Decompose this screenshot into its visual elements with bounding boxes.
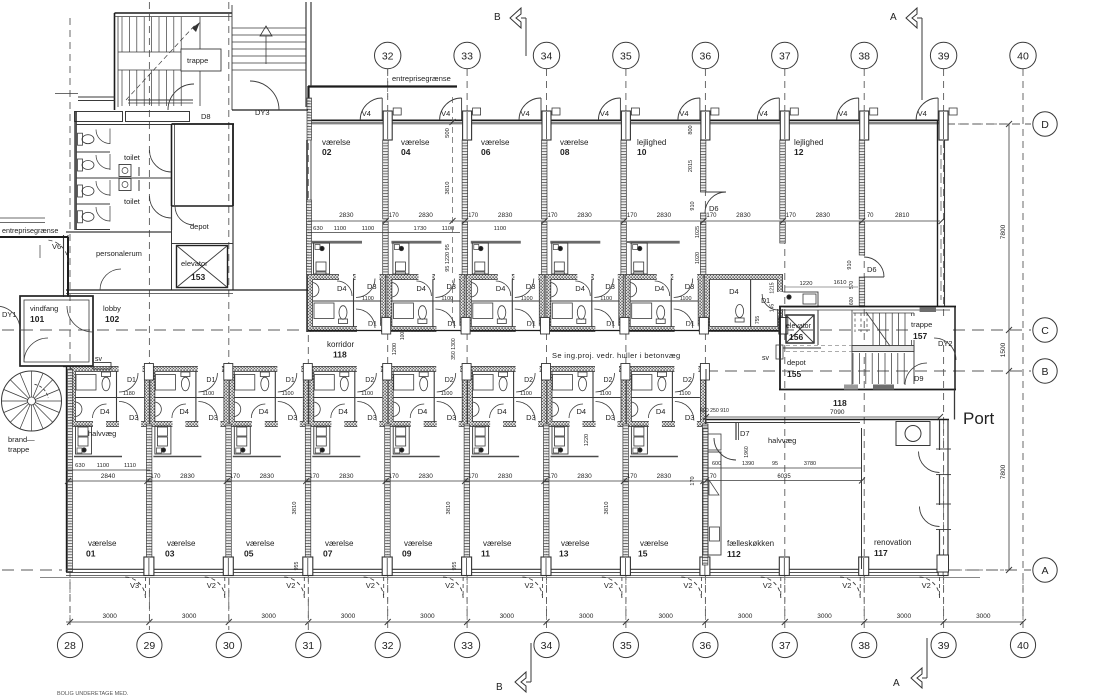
svg-text:A: A (890, 12, 897, 23)
grid bubble A (1033, 558, 1057, 582)
svg-text:3810: 3810 (292, 502, 298, 515)
grid bubble 30 bottom (216, 632, 241, 657)
svg-text:toilet: toilet (124, 153, 141, 162)
svg-text:1100: 1100 (334, 226, 346, 232)
bathroom pod south 1 (152, 369, 226, 424)
svg-text:33: 33 (461, 51, 473, 63)
svg-text:3810: 3810 (446, 502, 452, 515)
svg-text:D4: D4 (575, 284, 585, 293)
svg-text:V4: V4 (679, 109, 688, 118)
trappe 157 treads upper (854, 313, 856, 332)
grid line 32 (387, 69, 389, 630)
kitchenette south module 3 (312, 456, 360, 458)
svg-text:BOLIG UNDERETAGE MED.: BOLIG UNDERETAGE MED. (57, 691, 129, 697)
svg-text:09: 09 (402, 549, 412, 559)
grid bubble 39 bottom (931, 632, 956, 657)
pier south grid 31 (303, 557, 313, 576)
svg-text:A: A (1041, 565, 1048, 577)
spiral stair brandtrappe (2, 371, 62, 431)
svg-text:værelse: værelse (246, 539, 275, 548)
svg-text:153: 153 (191, 272, 205, 282)
party wall grid 33 lower-south (464, 481, 470, 565)
svg-text:156: 156 (789, 332, 803, 342)
wall pods-east (705, 369, 707, 424)
svg-text:1100: 1100 (600, 296, 612, 302)
stair dashed landing lines (786, 345, 852, 347)
grid line C (2, 329, 306, 331)
door V4 grid 39 (916, 98, 938, 120)
svg-text:1100: 1100 (441, 391, 453, 397)
svg-text:15: 15 (638, 549, 648, 559)
grid bubble 37 bottom (772, 632, 797, 657)
pier grid 34 (542, 111, 551, 140)
svg-text:170: 170 (547, 474, 558, 480)
door arc DY2 (934, 338, 956, 360)
pier grid 35 (621, 111, 630, 140)
svg-text:2830: 2830 (339, 473, 354, 480)
svg-text:02: 02 (322, 147, 332, 157)
bathroom pod south 2 (232, 369, 306, 424)
svg-text:D2: D2 (604, 377, 613, 384)
kitchenette north module 2 (471, 241, 521, 244)
grid bubble D (1033, 112, 1057, 136)
exit door V2 4 (522, 577, 543, 598)
svg-text:102: 102 (105, 314, 119, 324)
svg-text:1180: 1180 (123, 391, 135, 397)
door arc renovation south (920, 507, 940, 527)
corridor pier south grid 30 (224, 364, 233, 381)
bathroom pod south 4 (391, 369, 465, 424)
grid line 38 (863, 69, 865, 630)
svg-text:03: 03 (165, 549, 175, 559)
svg-text:170: 170 (150, 474, 161, 480)
svg-text:08: 08 (560, 147, 570, 157)
pier south grid 33 (462, 557, 472, 576)
svg-text:600: 600 (849, 297, 855, 306)
svg-text:170: 170 (389, 213, 400, 219)
corridor pier south grid 35 (621, 364, 630, 381)
svg-text:værelse: værelse (561, 539, 590, 548)
trappe 157 treads lower (852, 353, 854, 384)
svg-text:600: 600 (712, 461, 721, 467)
renovation appliance (896, 422, 930, 446)
corridor north wall (308, 330, 782, 332)
svg-text:V2: V2 (366, 581, 375, 590)
svg-text:D1: D1 (286, 377, 295, 384)
svg-text:værelse: værelse (88, 539, 117, 548)
svg-text:B: B (1041, 366, 1048, 378)
svg-text:170: 170 (627, 213, 638, 219)
right stair block outer walls (779, 306, 956, 308)
svg-text:V6: V6 (52, 242, 61, 251)
grid bubble 37 top (772, 42, 798, 68)
outdoor stair top (231, 5, 233, 110)
party wall grid 38 lower (859, 222, 865, 255)
svg-text:36: 36 (700, 640, 712, 652)
svg-text:35: 35 (620, 51, 632, 63)
party wall grid 34 lower (542, 222, 548, 277)
svg-text:sv: sv (95, 356, 103, 363)
grid bubble 38 bottom (852, 632, 877, 657)
svg-text:36: 36 (700, 51, 712, 63)
svg-text:V4: V4 (759, 109, 768, 118)
svg-text:trappe: trappe (911, 320, 932, 329)
svg-text:D4: D4 (496, 284, 506, 293)
svg-text:V4: V4 (521, 109, 530, 118)
svg-text:V2: V2 (207, 581, 216, 590)
svg-text:04: 04 (401, 147, 411, 157)
door V4 grid 34 (519, 98, 541, 120)
svg-text:Port: Port (963, 409, 994, 428)
svg-text:3000: 3000 (420, 613, 435, 620)
sidewalk lines far left (0, 217, 45, 219)
svg-text:V4: V4 (362, 109, 371, 118)
party wall grid 35 lower-south (623, 481, 629, 565)
svg-text:118: 118 (833, 398, 847, 408)
bathroom pod north 2 (469, 277, 542, 329)
wall hatch segments stair block (920, 308, 936, 313)
window box grid 39 (949, 108, 957, 115)
svg-text:3000: 3000 (658, 613, 673, 620)
svg-text:V2: V2 (842, 581, 851, 590)
svg-text:05: 05 (244, 549, 254, 559)
svg-text:1110: 1110 (124, 463, 136, 469)
svg-text:500: 500 (445, 128, 451, 138)
svg-text:V2: V2 (922, 581, 931, 590)
svg-text:34: 34 (541, 640, 553, 652)
svg-text:1610: 1610 (834, 280, 847, 286)
grid line 34 (546, 69, 548, 630)
grid line 33 (466, 69, 468, 630)
party wall grid 36 lower (700, 222, 706, 277)
svg-text:170: 170 (468, 474, 479, 480)
svg-text:brand—: brand— (8, 435, 35, 444)
pier grid 36 (701, 111, 710, 140)
svg-text:112: 112 (727, 549, 741, 559)
kitchenette south module 4 (392, 456, 440, 458)
grid bubble 31 bottom (296, 632, 321, 657)
svg-text:95 1220 95: 95 1220 95 (445, 244, 451, 272)
door arc vindfang west (0, 306, 20, 330)
svg-text:1100: 1100 (600, 391, 612, 397)
dimension line south pods (66, 469, 150, 471)
svg-text:570: 570 (849, 281, 855, 290)
svg-text:personalerum: personalerum (96, 249, 142, 258)
bathroom pod north 3 (548, 277, 621, 329)
svg-text:2830: 2830 (577, 473, 592, 480)
svg-text:lejlighed: lejlighed (637, 138, 666, 147)
party wall grid 33 upper-south (464, 424, 470, 481)
svg-text:fælleskøkken: fælleskøkken (727, 539, 774, 548)
svg-text:1215: 1215 (770, 282, 776, 293)
svg-text:V2: V2 (286, 581, 295, 590)
svg-text:2830: 2830 (339, 212, 354, 219)
party wall grid 35 upper-south (623, 424, 629, 481)
svg-text:1220: 1220 (584, 434, 590, 446)
pier grid 37 (780, 111, 789, 140)
kitchenette south module 5 (471, 456, 519, 458)
grid bubble 36 top (692, 42, 718, 68)
svg-text:3000: 3000 (261, 613, 276, 620)
svg-text:155: 155 (787, 369, 801, 379)
exit door V2 5 (601, 577, 622, 598)
dimension line bottom 3000 (66, 621, 1023, 623)
pier south grid 32 (382, 557, 392, 576)
svg-text:1390: 1390 (742, 461, 754, 467)
svg-text:Se ing.proj. vedr. huller i be: Se ing.proj. vedr. huller i betonvæg (552, 351, 681, 360)
svg-text:170: 170 (786, 213, 797, 219)
corridor pier south grid 29 (144, 364, 153, 381)
dimension line north pods (308, 232, 460, 234)
svg-text:V2: V2 (604, 581, 613, 590)
stair treads inner (121, 17, 123, 52)
svg-text:170: 170 (468, 213, 479, 219)
vindfang 101 walls (20, 296, 93, 366)
dimension chain right (1008, 124, 1010, 570)
corridor pier south grid 36 (700, 364, 709, 381)
svg-text:1100: 1100 (441, 296, 453, 302)
svg-text:3000: 3000 (579, 613, 594, 620)
svg-text:D4: D4 (100, 407, 110, 416)
door V4 grid 36 (678, 98, 700, 120)
room label trappe 157 (908, 316, 950, 340)
svg-text:170: 170 (706, 213, 717, 219)
wall port west stub (954, 390, 956, 420)
svg-text:D1: D1 (206, 377, 215, 384)
svg-text:2830: 2830 (498, 473, 513, 480)
grid line 28 (69, 18, 71, 630)
corridor pier north grid 32 (382, 318, 391, 335)
svg-text:depot: depot (787, 358, 807, 367)
svg-text:33: 33 (461, 640, 473, 652)
svg-text:D7: D7 (740, 429, 750, 438)
svg-text:B: B (496, 682, 503, 693)
svg-text:værelse: værelse (483, 539, 512, 548)
svg-text:D6: D6 (709, 204, 719, 213)
svg-text:lobby: lobby (103, 304, 121, 313)
door D6 lejlighed 10 (705, 192, 726, 213)
svg-text:6035: 6035 (777, 474, 791, 480)
svg-text:V4: V4 (600, 109, 609, 118)
svg-text:39: 39 (938, 51, 950, 63)
svg-text:12: 12 (794, 147, 804, 157)
svg-text:1100: 1100 (202, 391, 214, 397)
kitchenette south module 0 (74, 456, 122, 458)
pier renovation SE (937, 555, 949, 572)
svg-text:7800: 7800 (1000, 224, 1007, 239)
svg-text:118: 118 (333, 350, 347, 360)
svg-text:13: 13 (559, 549, 569, 559)
svg-text:170: 170 (690, 476, 696, 485)
toilet room doors (150, 150, 172, 172)
svg-text:2015: 2015 (688, 160, 694, 172)
exit door V2 1 (283, 577, 304, 598)
corridor pier north grid 35 (620, 318, 629, 335)
svg-text:01: 01 (86, 549, 96, 559)
kitchenette lejlighed 12 (782, 292, 818, 307)
window box grid 38 (870, 108, 878, 115)
svg-text:1100: 1100 (97, 463, 109, 469)
grid bubble 34 bottom (534, 632, 559, 657)
svg-text:V2: V2 (763, 581, 772, 590)
svg-text:værelse: værelse (640, 539, 669, 548)
depot 155 (783, 347, 821, 349)
svg-text:2830: 2830 (657, 212, 672, 219)
svg-text:350 1300: 350 1300 (451, 338, 457, 360)
svg-text:værelse: værelse (325, 539, 354, 548)
svg-text:D4: D4 (337, 284, 347, 293)
svg-text:1020: 1020 (695, 252, 701, 264)
pier south grid 36 (700, 557, 710, 576)
svg-text:entreprisegrænse: entreprisegrænse (2, 226, 58, 235)
svg-text:D4: D4 (179, 407, 189, 416)
svg-text:korridor: korridor (327, 340, 354, 349)
bathroom pod south 0 (73, 369, 147, 424)
corridor pier south grid 33 (462, 364, 471, 381)
window box grid 36 (711, 108, 719, 115)
pier south grid 39 (938, 557, 948, 576)
svg-text:elevator: elevator (786, 323, 812, 330)
svg-text:170: 170 (627, 474, 638, 480)
bathroom pod south 5 (470, 369, 544, 424)
party wall grid 34 upper-south (544, 424, 550, 481)
svg-text:V2: V2 (683, 581, 692, 590)
twin basins (119, 165, 131, 177)
svg-text:V2: V2 (445, 581, 454, 590)
party wall grid 30 lower-south (226, 481, 232, 565)
svg-text:910: 910 (847, 260, 853, 269)
stair landing bar (852, 346, 914, 352)
corridor pier north grid 37 (779, 318, 788, 335)
corridor pier north grid 36 (699, 318, 708, 335)
svg-text:3000: 3000 (182, 613, 197, 620)
svg-text:600 250 910: 600 250 910 (700, 408, 729, 414)
svg-text:trappe: trappe (187, 56, 208, 65)
svg-text:1100: 1100 (679, 391, 691, 397)
svg-text:3810: 3810 (445, 182, 451, 195)
svg-text:1100: 1100 (361, 391, 373, 397)
svg-text:C: C (1041, 325, 1049, 337)
exit door V2 0 (204, 577, 225, 598)
fælleskøkken dims (706, 467, 862, 469)
svg-text:3000: 3000 (976, 613, 991, 620)
door personalerum (100, 269, 121, 290)
svg-text:170: 170 (230, 474, 241, 480)
door V4 grid 37 (757, 98, 779, 120)
grid line D (947, 123, 1031, 125)
svg-text:1220: 1220 (800, 281, 813, 287)
svg-text:A: A (893, 678, 900, 689)
window box grid 34 (552, 108, 560, 115)
svg-text:D4: D4 (259, 407, 269, 416)
halvvæg partition D7 (735, 422, 737, 440)
party wall grid 29 upper-south (146, 424, 152, 481)
north wing west wall (307, 98, 312, 140)
window box grid 37 (790, 108, 798, 115)
svg-text:2830: 2830 (577, 212, 592, 219)
exit door V2 7 (760, 577, 781, 598)
kitchenette south module 2 (233, 456, 281, 458)
svg-text:D9: D9 (914, 374, 924, 383)
svg-text:renovation: renovation (874, 538, 911, 547)
svg-text:1200: 1200 (392, 343, 398, 355)
pier grid 39 (939, 111, 948, 140)
svg-text:toilet: toilet (124, 197, 141, 206)
bathroom pod south 7 (629, 369, 703, 424)
svg-text:D2: D2 (365, 377, 374, 384)
svg-text:3000: 3000 (102, 613, 117, 620)
svg-text:31: 31 (302, 640, 314, 652)
grid bubble 32 bottom (375, 632, 400, 657)
svg-text:101: 101 (30, 314, 44, 324)
grid bubble 34 top (533, 42, 559, 68)
kitchenette south module 6 (551, 456, 599, 458)
grid bubble 35 top (613, 42, 639, 68)
svg-text:630: 630 (313, 226, 323, 232)
party wall grid 36 south full (702, 424, 708, 565)
grid line 29 (148, 2, 150, 630)
party wall grid 32 upper-south (385, 424, 391, 481)
svg-text:29: 29 (144, 640, 156, 652)
grid bubble 33 top (454, 42, 480, 68)
svg-text:40: 40 (1017, 51, 1029, 63)
pier south grid 35 (620, 557, 630, 576)
svg-text:100: 100 (400, 332, 406, 341)
bathroom pod north 0 (310, 277, 383, 329)
svg-text:værelse: værelse (560, 138, 589, 147)
elevator 153 (177, 246, 228, 288)
pier south grid 29 (144, 557, 154, 576)
renovation east wall (939, 420, 941, 451)
door arc renovation north (919, 452, 940, 473)
grid line A (2, 569, 62, 571)
pier grid 33 (463, 111, 472, 140)
door arc vindfang east (67, 306, 93, 332)
stair diagonal (866, 312, 890, 346)
door V4 grid 32 (360, 98, 382, 120)
door V4 grid 33 (440, 98, 462, 120)
pier grid 38 (860, 111, 869, 140)
svg-text:2830: 2830 (418, 212, 433, 219)
south facade wall (66, 568, 948, 570)
party wall grid 32 upper (383, 140, 389, 219)
svg-text:170: 170 (547, 213, 558, 219)
dimension line south 2830 (66, 480, 706, 482)
svg-text:2830: 2830 (657, 473, 672, 480)
svg-text:trappe: trappe (8, 445, 29, 454)
kitchenette north module 3 (550, 241, 600, 244)
svg-text:32: 32 (382, 640, 394, 652)
svg-text:3810: 3810 (604, 502, 610, 515)
kitchenette north module 0 (312, 241, 362, 244)
door D6 lejlighed 12 (864, 257, 884, 277)
svg-text:3000: 3000 (738, 613, 753, 620)
pier south grid 37 (779, 557, 789, 576)
svg-text:170: 170 (309, 474, 320, 480)
svg-text:35: 35 (620, 640, 632, 652)
svg-text:1100: 1100 (494, 226, 506, 232)
entreprisegrænse line top (308, 85, 457, 87)
svg-text:910: 910 (690, 201, 696, 210)
pier grid 39 (939, 111, 948, 140)
svg-text:D4: D4 (338, 407, 348, 416)
svg-text:værelse: værelse (322, 138, 351, 147)
party wall grid 31 lower-south (305, 481, 311, 565)
svg-text:depot: depot (190, 222, 210, 231)
svg-text:2830: 2830 (418, 473, 433, 480)
grid line 36 (704, 69, 706, 630)
party wall grid 34 lower-south (544, 481, 550, 565)
